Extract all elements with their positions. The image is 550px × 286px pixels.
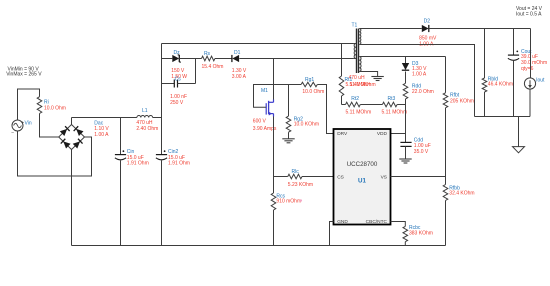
svg-text:−: − [11, 131, 14, 137]
svg-text:D2: D2 [424, 18, 431, 24]
wire secondary top rail [359, 28, 422, 30]
resistor Rt3 [360, 104, 382, 106]
wire Vin top to Ri [18, 89, 40, 120]
capacitor Cin [120, 118, 122, 155]
ground output [518, 117, 520, 147]
svg-text:1.00 A: 1.00 A [94, 132, 109, 138]
resistor Rg2 [288, 85, 290, 117]
ground aux [371, 76, 383, 78]
svg-text:Rt3: Rt3 [388, 96, 396, 102]
svg-text:U1: U1 [358, 178, 366, 185]
svg-text:383 KOhm: 383 KOhm [409, 231, 433, 237]
svg-text:CS: CS [337, 175, 344, 181]
svg-text:VinMax = 265 V: VinMax = 265 V [6, 71, 42, 77]
diode D3 [405, 57, 407, 64]
ground Cdd [399, 158, 411, 160]
svg-text:VS: VS [381, 175, 387, 181]
wire Rg1 to DRV pin [317, 85, 333, 134]
diode D1 [215, 58, 232, 60]
wire bulk rail [72, 117, 137, 119]
resistor Rcs [271, 193, 276, 210]
svg-text:10.0 KOhm: 10.0 KOhm [294, 122, 319, 128]
resistor Rcbc [391, 222, 406, 227]
op-amp U1 UCC28700 controller [334, 129, 391, 225]
svg-text:Rg1: Rg1 [305, 77, 314, 83]
svg-text:2.40 Ohm: 2.40 Ohm [136, 126, 158, 132]
svg-text:M1: M1 [261, 88, 268, 94]
capacitor Cin2 [161, 118, 163, 155]
wire Ri to bridge left [40, 114, 59, 138]
ground Rg2 [282, 138, 294, 140]
svg-text:UCC28700: UCC28700 [347, 161, 378, 168]
svg-text:22.0 Ohm: 22.0 Ohm [412, 89, 434, 95]
svg-text:35.0 V: 35.0 V [414, 149, 429, 155]
transistor M1 [273, 100, 275, 103]
svg-text:5.11 MOhm: 5.11 MOhm [382, 109, 408, 115]
wire output bottom rail [475, 116, 531, 118]
svg-text:DRV: DRV [337, 131, 348, 137]
resistor Rlc [274, 176, 288, 178]
svg-text:10.0 Ohm: 10.0 Ohm [44, 105, 66, 111]
svg-text:205 KOhm: 205 KOhm [450, 99, 474, 105]
svg-text:D1: D1 [234, 50, 241, 56]
svg-text:1.00 nF: 1.00 nF [170, 94, 187, 100]
wire L1 to snubber node [153, 117, 162, 119]
svg-text:1.91 Ohm: 1.91 Ohm [127, 161, 149, 167]
svg-text:32.4 KOhm: 32.4 KOhm [449, 190, 474, 196]
wire GND pin [330, 222, 334, 246]
svg-text:910 mOhm: 910 mOhm [276, 199, 301, 205]
capacitor Cout [513, 29, 515, 56]
wire Vin bottom to bridge right [18, 131, 92, 176]
svg-text:5.11 MOhm: 5.11 MOhm [346, 82, 372, 88]
svg-text:Rlc: Rlc [292, 169, 300, 175]
resistor Rdd [405, 72, 407, 84]
svg-text:CBC/NTC: CBC/NTC [366, 219, 388, 225]
svg-text:Vin: Vin [25, 120, 32, 126]
svg-text:Cs: Cs [175, 77, 182, 83]
wire Rcs to ground rail [273, 210, 275, 246]
source Vin [12, 120, 23, 131]
wire bulk+ riser [161, 44, 163, 118]
svg-text:15.4 Ohm: 15.4 Ohm [202, 64, 224, 70]
svg-text:5.11 MOhm: 5.11 MOhm [346, 109, 372, 115]
svg-text:Rt2: Rt2 [351, 96, 359, 102]
wire top rail to transformer primary [162, 43, 354, 45]
wire secondary bottom [359, 45, 474, 117]
svg-text:GND: GND [337, 219, 348, 225]
wire aux bottom [359, 72, 377, 77]
svg-text:L1: L1 [142, 108, 148, 114]
svg-text:Iout = 0.5 A: Iout = 0.5 A [516, 12, 542, 18]
wire gate loop [254, 85, 289, 108]
svg-text:46.4 KOhm: 46.4 KOhm [488, 81, 513, 87]
resistor Rg1 [289, 84, 302, 86]
inductor L1 [137, 116, 153, 118]
resistor Rfbt [445, 57, 447, 93]
svg-text:600 V: 600 V [253, 118, 267, 124]
wire bridge top to bulk rail [71, 118, 73, 125]
svg-text:VDD: VDD [377, 131, 388, 137]
capacitor Cs [162, 83, 175, 85]
capacitor Cdd [405, 134, 407, 143]
svg-text:5.23 KOhm: 5.23 KOhm [288, 182, 313, 188]
svg-text:qty=6: qty=6 [521, 66, 534, 72]
wire drain [273, 59, 275, 100]
svg-text:250 V: 250 V [170, 100, 184, 106]
resistor Rfbb [443, 185, 448, 201]
resistor Rbld [484, 29, 486, 79]
svg-text:1.91 Ohm: 1.91 Ohm [168, 161, 190, 167]
resistor Ri [37, 97, 42, 114]
diode D2 [422, 25, 429, 32]
resistor Rt2 [342, 104, 346, 106]
svg-text:Iout: Iout [536, 78, 545, 84]
svg-text:T1: T1 [352, 22, 358, 28]
wire VS pin [391, 176, 446, 178]
wire VDD [391, 133, 406, 135]
wire bridge bottom to ground rail [71, 150, 73, 246]
zener Dz [162, 58, 173, 60]
svg-text:3.00 A: 3.00 A [232, 74, 247, 80]
wire ground rail [72, 245, 446, 247]
probe marker [300, 199, 302, 201]
wire switch node rail [274, 58, 354, 60]
svg-text:10.0 Ohm: 10.0 Ohm [302, 89, 324, 95]
svg-text:Dz: Dz [174, 50, 181, 56]
wire aux top [359, 56, 445, 58]
svg-text:Rs: Rs [204, 51, 211, 57]
resistor Rs [202, 56, 215, 61]
resistor Rt1 [341, 44, 343, 77]
wire source to CS node [273, 117, 275, 194]
bridge rectifier Dac [59, 125, 72, 138]
source Iout [530, 29, 532, 78]
svg-text:1.00 A: 1.00 A [412, 71, 427, 77]
